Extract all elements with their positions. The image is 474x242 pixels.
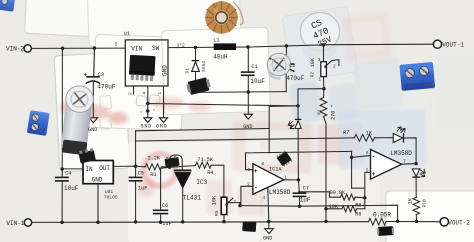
svg-text:GND: GND — [88, 127, 97, 133]
capacitor C4 — [55, 177, 69, 181]
wire cathode to R4 — [170, 166, 196, 168]
diode D1 — [192, 47, 200, 92]
ground symbol C1 — [244, 114, 252, 119]
capacitor C5 — [129, 166, 143, 221]
wire U1 pin1 stub — [163, 86, 165, 118]
svg-text:-: - — [254, 184, 258, 191]
wire pin6 lower branch — [352, 157, 365, 188]
wire 5V long run — [136, 129, 270, 131]
node IC1A output — [297, 178, 300, 181]
svg-text:C1: C1 — [251, 64, 257, 70]
wire ground bus D1 C1 C2 — [196, 91, 287, 94]
faded red photo top-right — [341, 11, 392, 62]
resistor R3 — [136, 164, 170, 170]
svg-text:GND: GND — [92, 177, 103, 184]
node C7 bottom — [298, 205, 301, 208]
ground symbol C3 — [89, 118, 97, 123]
svg-text:90.9K: 90.9K — [330, 190, 346, 196]
node R8 gnd — [324, 207, 327, 210]
node rail TL431 anode — [181, 220, 184, 223]
terminal VIN-2 — [24, 45, 31, 52]
svg-text:78L05: 78L05 — [104, 195, 118, 201]
svg-text:5: 5 — [366, 168, 369, 174]
node SW diode tap — [194, 46, 197, 49]
svg-text:VOUT-1: VOUT-1 — [442, 41, 464, 48]
photo SOT diode D1 — [186, 77, 212, 96]
led D3 — [288, 106, 301, 180]
wire FB long run to U1 pin4 — [148, 104, 298, 106]
node 78L05 in — [61, 167, 64, 170]
capacitor C7 — [293, 180, 307, 206]
photo toroid L1 — [205, 1, 238, 34]
svg-text:C4: C4 — [65, 170, 71, 176]
svg-text:R4: R4 — [207, 170, 213, 176]
photo shunt resistor — [377, 226, 394, 236]
svg-text:R3: R3 — [150, 172, 156, 178]
svg-text:4: 4 — [142, 92, 148, 95]
wire U1 pin4 stub — [147, 86, 149, 118]
photo SOIC8 IC1A — [276, 150, 293, 168]
photo card behind U1 — [92, 34, 184, 130]
ic U1 box — [125, 40, 168, 86]
wire vertical VIN to C4 and bottom rail — [61, 48, 63, 177]
node FB divider junction — [322, 87, 325, 90]
wire R7 to led D4 — [375, 137, 394, 139]
photo blue terminal corner top-left — [0, 0, 15, 12]
node junction top rail x94 — [93, 46, 96, 49]
svg-text:L1: L1 — [213, 38, 219, 44]
svg-text:10uF: 10uF — [64, 185, 79, 192]
svg-text:-: - — [372, 154, 376, 161]
svg-text:4: 4 — [262, 195, 265, 201]
svg-text:2: 2 — [233, 199, 236, 205]
svg-text:C7: C7 — [303, 186, 309, 192]
svg-text:R6: R6 — [355, 202, 361, 208]
photo card behind L1 D1 C1 — [162, 27, 271, 115]
svg-text:OUT: OUT — [99, 165, 110, 172]
svg-text:3: 3 — [247, 167, 250, 173]
svg-text:2: 2 — [247, 182, 250, 188]
photo card top-middle — [87, 0, 241, 47]
wire 78L05 out stub — [113, 165, 135, 167]
wire R7 long run — [136, 138, 355, 141]
svg-text:LM358D: LM358D — [390, 150, 412, 157]
svg-text:+: + — [372, 171, 376, 178]
svg-text:VIN-2: VIN-2 — [6, 46, 24, 53]
wire 5V riser to FB tee — [269, 106, 298, 153]
svg-text:1: 1 — [284, 174, 287, 180]
svg-text:R8: R8 — [355, 211, 361, 217]
node rail IC1A gnd — [267, 220, 270, 223]
faded blue resistor photos — [288, 80, 323, 124]
svg-text:D1: D1 — [185, 68, 191, 74]
photo card behind C3 — [54, 52, 130, 172]
node rail sense left — [396, 220, 399, 223]
wire ref down to IC1A pin3 — [246, 153, 253, 170]
svg-text:GND GND: GND GND — [141, 123, 168, 129]
svg-text:IC3: IC3 — [196, 179, 207, 186]
wire D4 to output node — [404, 138, 417, 164]
white card behind mid-bottom schematic — [128, 142, 260, 242]
opamp IC1B — [371, 150, 402, 180]
wire IC1B pin5 stub — [365, 172, 371, 208]
photo D2PAK LM2576 on U1 — [129, 55, 156, 81]
faint silkscreen marks under U1 — [136, 93, 160, 107]
svg-text:10K: 10K — [310, 57, 316, 67]
svg-text:1: 1 — [318, 77, 321, 83]
node L1 C1 tap — [246, 45, 249, 48]
photo SOT23 TL431 — [164, 155, 179, 167]
svg-text:VIN-1: VIN-1 — [6, 220, 24, 227]
svg-text:+: + — [254, 168, 258, 175]
photo card top-left — [24, 0, 135, 39]
node rail C4 — [60, 221, 63, 224]
capacitor C3 — [86, 77, 100, 118]
svg-text:C5: C5 — [138, 170, 144, 176]
node rail trimmer — [222, 220, 225, 223]
svg-text:7: 7 — [403, 158, 406, 164]
svg-text:IN: IN — [85, 166, 93, 173]
svg-text:SS54: SS54 — [201, 61, 207, 72]
svg-text:VOUT-2: VOUT-2 — [448, 220, 470, 227]
resistor R7 — [354, 134, 374, 141]
svg-text:GND: GND — [263, 235, 272, 241]
svg-text:IC1A: IC1A — [269, 166, 282, 172]
node R6 R8 junction — [363, 196, 366, 199]
wire IC1A pin2 stub — [241, 186, 253, 205]
svg-text:10K: 10K — [211, 195, 217, 205]
svg-text:2.2K: 2.2K — [148, 156, 161, 162]
svg-text:GND: GND — [243, 124, 252, 130]
svg-text:5: 5 — [152, 59, 155, 65]
opamp IC1A — [253, 164, 284, 195]
svg-text:6: 6 — [366, 150, 369, 156]
svg-text:8: 8 — [261, 161, 264, 167]
svg-text:R1: R1 — [316, 109, 322, 115]
enamel wire tail above L1 — [233, 2, 243, 25]
svg-text:R7: R7 — [343, 130, 349, 136]
ground symbol U1 a — [144, 118, 152, 123]
svg-text:470uF: 470uF — [97, 83, 115, 90]
terminal VOUT-1 — [433, 40, 441, 48]
node ground bus C1 — [247, 90, 250, 93]
photo blue terminal block right — [399, 62, 435, 91]
wire FB to U1 — [298, 89, 324, 106]
terminal VOUT-2 — [440, 218, 448, 226]
wire 5V from 78L05 out — [135, 131, 137, 166]
node C2 tap — [285, 44, 288, 47]
wire U1 pin2 stub — [133, 86, 135, 94]
svg-text:C6: C6 — [162, 203, 168, 209]
faded red photo area mid-bottom — [231, 121, 363, 174]
node rail R1 R8 gnd — [324, 220, 327, 223]
photo card behind big cap — [282, 6, 358, 82]
bottom rail right section — [386, 221, 440, 223]
capacitor C2 — [278, 46, 295, 92]
svg-text:LM2576S: LM2576S — [133, 67, 147, 72]
shunt regulator IC3 TL431 — [170, 155, 192, 222]
photo electrolytic cap C3 — [59, 84, 95, 155]
faint silkscreen marks on C3 card — [100, 96, 112, 130]
node trimmer wiper junction — [238, 204, 241, 207]
svg-text:71.5K: 71.5K — [197, 157, 213, 163]
svg-text:LM358D: LM358D — [269, 189, 291, 196]
bottom rail left section — [32, 221, 369, 224]
faded card right edge — [432, 54, 474, 132]
node rail 78L05 gnd — [96, 221, 99, 224]
resistor R4 — [196, 162, 224, 197]
resistor R10 — [413, 197, 420, 221]
svg-text:1uF: 1uF — [138, 185, 147, 191]
resistor R6 — [299, 192, 365, 200]
photo electrolytic cap C2 — [266, 52, 292, 80]
ic U$1 78L05 box — [83, 161, 113, 184]
wire SW output rail to VOUT-1 — [168, 44, 433, 47]
node 78L05 out — [134, 165, 137, 168]
svg-text:U1: U1 — [124, 31, 130, 37]
svg-text:U$1: U$1 — [105, 189, 114, 195]
wire IC1A output — [284, 179, 299, 181]
wire IC1B output — [402, 163, 416, 166]
node rail R10 — [415, 220, 418, 223]
svg-text:1: 1 — [157, 92, 163, 95]
svg-text:TL431: TL431 — [183, 194, 201, 201]
svg-text:R5: R5 — [214, 210, 220, 216]
led D5 — [412, 169, 425, 197]
pink watermark left — [60, 100, 128, 124]
wire current sense run — [240, 205, 398, 221]
trimmer R5 — [221, 197, 240, 221]
wire 78L05 in stub — [62, 168, 83, 170]
svg-text:C3: C3 — [98, 72, 104, 78]
svg-text:10uF: 10uF — [250, 78, 265, 85]
blue wash behind IC1B — [337, 108, 427, 169]
svg-text:VIN: VIN — [131, 45, 142, 52]
svg-text:SW: SW — [152, 45, 160, 52]
white card bottom-right corner — [386, 191, 474, 242]
photo blue terminal block left — [27, 110, 50, 136]
svg-text:0.05R: 0.05R — [373, 211, 391, 218]
svg-text:R2: R2 — [310, 72, 316, 78]
svg-text:1uF: 1uF — [300, 196, 311, 203]
svg-text:40uH: 40uH — [213, 53, 228, 60]
resistor R1 — [320, 89, 327, 222]
capacitor C6 — [153, 167, 170, 222]
svg-text:5: 5 — [115, 42, 118, 48]
svg-text:2: 2 — [128, 92, 134, 95]
svg-text:3*2: 3*2 — [177, 42, 186, 48]
node junction top rail x62 — [61, 47, 64, 50]
potentiometer R2 — [321, 45, 339, 89]
node FB wire tee — [296, 104, 299, 107]
svg-text:R10: R10 — [422, 199, 428, 208]
photo big cap CS470 — [300, 13, 339, 61]
svg-text:470uF: 470uF — [286, 75, 304, 82]
wire ref run to opamp inputs — [246, 151, 352, 153]
wire IC1A pin4 gnd stub — [268, 188, 269, 222]
ground symbol main — [265, 222, 273, 234]
ground symbol U1 b — [160, 118, 168, 123]
wire C1 gnd drop — [247, 92, 249, 114]
resistor R9 shunt 0.05R — [369, 218, 387, 225]
wire top rail input — [32, 47, 126, 49]
node TL431 cathode — [168, 166, 171, 169]
wire C3 drop — [93, 48, 96, 76]
svg-text:3: 3 — [318, 57, 321, 63]
svg-text:270 *: 270 * — [331, 104, 337, 120]
photo SOT below rail — [242, 222, 256, 232]
terminal VIN-1 — [24, 219, 31, 226]
svg-text:R010: R010 — [381, 231, 391, 236]
capacitor C1 — [241, 47, 255, 92]
svg-text:C2: C2 — [289, 63, 295, 69]
node ref at IC1B pin6 — [350, 156, 353, 159]
node rail C5 — [134, 220, 137, 223]
svg-text:2: 2 — [333, 64, 336, 70]
svg-text:1K: 1K — [366, 130, 373, 136]
svg-text:10K: 10K — [329, 204, 339, 210]
node dot FB pin — [146, 102, 149, 105]
svg-text:1K: 1K — [407, 197, 413, 204]
pink watermark mid — [152, 97, 212, 112]
node IC1B output — [414, 162, 417, 165]
wire ref corner to pin6 — [352, 151, 371, 157]
svg-text:1uF: 1uF — [162, 221, 171, 227]
inductor L1 — [214, 43, 236, 50]
node rail C6 — [159, 221, 162, 224]
node dot ON/OFF pin — [146, 109, 149, 112]
resistor R8 — [326, 206, 365, 212]
wire 78L05 gnd stub — [97, 184, 99, 223]
svg-text:GND: GND — [161, 65, 168, 76]
faded red ring photo behind TL431 — [144, 154, 176, 186]
node R2 tap — [322, 43, 325, 46]
led D4 — [393, 127, 405, 143]
photo SOT89 78L05 — [78, 148, 96, 163]
